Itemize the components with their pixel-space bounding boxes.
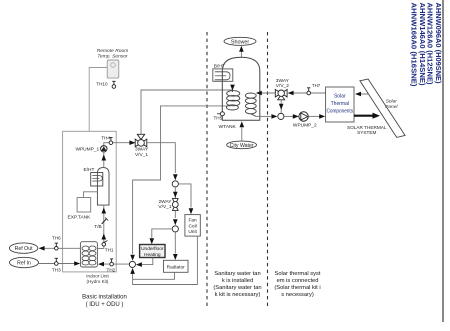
remote room temp sensor label <box>97 48 129 60</box>
svg-text:AHNW166A0 (H16SNE): AHNW166A0 (H16SNE) <box>410 3 419 87</box>
arrow down into junction A <box>173 174 178 180</box>
arrow up into pump <box>102 155 107 161</box>
caption Basic installation (IDU + ODU) <box>82 294 127 308</box>
sensor TH10 <box>96 81 115 88</box>
sanitary water tank WTANK <box>219 57 260 130</box>
sensor TH4 <box>101 136 112 145</box>
pipe junction D to pump 2 <box>284 115 294 117</box>
sensor TH5 <box>214 112 225 121</box>
svg-text:V/V_2: V/V_2 <box>276 83 289 89</box>
svg-text:TH5: TH5 <box>214 115 223 120</box>
section divider dashed line 2 <box>267 32 269 308</box>
arrow down into junction B <box>173 219 178 225</box>
svg-text:TH1: TH1 <box>105 247 114 252</box>
pipe HX to E/HT <box>103 205 105 248</box>
svg-text:k is installed: k is installed <box>222 278 253 284</box>
pipe tank coil return <box>133 106 231 254</box>
pipe valve V/V_2 down to junction D <box>280 100 282 114</box>
svg-text:TH2: TH2 <box>107 267 116 272</box>
svg-text:Solar: Solar <box>334 94 346 100</box>
pipe solar coil out to junction D <box>256 115 271 117</box>
pipe solar panel to components <box>359 93 376 95</box>
wire pump outlet to 3way valve <box>104 143 136 146</box>
arrow down into 2way valve <box>173 192 178 198</box>
svg-text:Solar: Solar <box>386 99 398 105</box>
refrigerant in ellipse <box>10 257 39 267</box>
pipe valve right port to junction A <box>147 143 176 173</box>
svg-text:TH4: TH4 <box>101 136 110 141</box>
arrow down into tank coil <box>230 85 235 91</box>
city water ellipse <box>227 141 257 149</box>
svg-text:Remote Room: Remote Room <box>97 48 129 54</box>
3way valve V/V_2 <box>275 78 289 100</box>
pipe 2way valve to junction B <box>174 210 176 218</box>
pipe 3way valve V/V_2 to tank solar coil <box>258 92 275 94</box>
radiator box <box>164 260 189 272</box>
arrow into bottom junction from right <box>136 262 142 267</box>
junction node A <box>172 181 178 187</box>
pipe HX outlet to TH1 riser <box>97 248 103 250</box>
svg-text:WTANK: WTANK <box>219 124 237 130</box>
pipe tank to shower <box>240 50 242 57</box>
svg-text:TH7: TH7 <box>312 83 321 88</box>
svg-text:V/V_1: V/V_1 <box>135 152 148 158</box>
arrow into HX water side <box>98 262 104 267</box>
svg-text:Temp. Sensor: Temp. Sensor <box>97 53 128 59</box>
svg-text:WPUMP_2: WPUMP_2 <box>293 123 317 129</box>
caption solar thermal note <box>274 271 321 298</box>
pipe junction B to radiator <box>174 232 176 254</box>
pipe junction A to fan coil unit <box>178 184 191 208</box>
svg-text:2WAY: 2WAY <box>158 199 172 205</box>
pipe city water to tank <box>241 128 243 142</box>
arrow into Ref Out <box>39 246 45 251</box>
svg-text:T/B: T/B <box>94 224 101 230</box>
svg-text:Underfloor: Underfloor <box>141 246 164 252</box>
service valve T/B <box>94 218 108 230</box>
arrow into junction D <box>271 114 277 119</box>
water pump WPUMP_1 <box>75 146 107 153</box>
sensor TH1 <box>102 241 114 253</box>
svg-text:( IDU + ODU ): ( IDU + ODU ) <box>86 302 124 308</box>
wire expansion tank to E/HT <box>84 192 98 198</box>
arrow into 3way valve V/V_1 <box>129 140 135 145</box>
svg-text:Thermal: Thermal <box>331 101 349 107</box>
arrow into HX refrigerant side <box>74 261 80 266</box>
svg-text:Unit: Unit <box>188 229 197 235</box>
page right border line <box>442 0 444 322</box>
arrow up above TH1 <box>102 234 107 240</box>
electric heater E/HT <box>84 167 110 205</box>
caption shower <box>224 37 256 45</box>
svg-text:3WAY: 3WAY <box>135 147 149 153</box>
underfloor heating return pipe <box>142 258 153 265</box>
arrow up into shower <box>239 46 244 52</box>
svg-text:(Hydro Kit): (Hydro Kit) <box>87 279 109 284</box>
svg-text:EXP.TANK: EXP.TANK <box>68 214 92 220</box>
wire E/HT to pump <box>103 152 105 167</box>
svg-text:Indoor Unit: Indoor Unit <box>86 273 109 278</box>
svg-text:s necessary): s necessary) <box>281 292 314 298</box>
sensor TH6 on Ref Out line <box>52 236 61 251</box>
pipe junction B to underfloor heating <box>152 229 172 238</box>
2way valve V/V_1 <box>158 199 178 211</box>
pipe pump 2 to solar components <box>308 115 320 117</box>
svg-text:Components: Components <box>327 109 354 115</box>
svg-text:WPUMP_1: WPUMP_1 <box>75 147 99 153</box>
svg-text:TH3: TH3 <box>52 268 61 273</box>
svg-text:Shower: Shower <box>231 39 249 45</box>
svg-text:Radiator: Radiator <box>167 264 186 270</box>
arrow down into radiator <box>173 254 178 260</box>
caption sanitary water tank note <box>213 271 261 298</box>
svg-text:Heating: Heating <box>144 252 161 258</box>
wire Ref In to HX <box>39 263 76 265</box>
indoor unit box <box>63 131 117 272</box>
svg-text:Coil: Coil <box>188 223 196 229</box>
solar thermal components box <box>326 87 354 122</box>
radiator return pipe <box>133 272 175 279</box>
arrow into valve V/V_2 right port <box>288 91 294 96</box>
svg-text:Sanitary water tan: Sanitary water tan <box>214 271 260 277</box>
wire remote sensor to indoor unit <box>89 68 107 132</box>
thick supply arrow components to panel <box>354 113 380 119</box>
underfloor heating box <box>140 245 165 259</box>
fan coil return pipe <box>133 236 198 284</box>
solar panel <box>360 79 405 137</box>
solar panel label <box>385 99 398 110</box>
water pump WPUMP_2 <box>293 112 317 129</box>
indoor unit caption <box>86 273 109 284</box>
arrow up into tank <box>240 121 245 127</box>
sensor TH2 <box>107 259 116 273</box>
arrow into solar components <box>319 114 325 119</box>
svg-text:em is connected: em is connected <box>277 278 319 284</box>
svg-text:(Sanitary water tan: (Sanitary water tan <box>213 285 261 291</box>
junction node C <box>129 261 135 267</box>
caption SOLAR THERMAL SYSTEM <box>347 125 387 135</box>
booster heater B/HT <box>213 64 233 82</box>
svg-text:City Water: City Water <box>230 143 254 149</box>
arrow down to junction D <box>279 104 284 110</box>
arrow into components from panel <box>355 92 361 97</box>
svg-text:Ref Out: Ref Out <box>15 246 33 252</box>
wire HX to Ref Out <box>44 247 80 249</box>
sensor TH7 <box>307 83 321 95</box>
pipe junction A to 2way valve <box>174 187 176 199</box>
refrigerant out ellipse <box>9 243 37 253</box>
junction node D <box>278 113 284 119</box>
arrow into solar coil <box>256 91 262 96</box>
fan coil unit box <box>185 215 200 237</box>
svg-text:V/V_1: V/V_1 <box>158 204 171 210</box>
pipe solar components to valve V/V_2 <box>294 92 326 94</box>
svg-text:Ref In: Ref In <box>17 261 31 267</box>
svg-text:(Solar thermal kit i: (Solar thermal kit i <box>274 285 320 291</box>
arrow up into E/HT <box>102 208 107 214</box>
arrow down into bottom junction <box>130 255 135 261</box>
svg-text:Fan: Fan <box>188 218 197 224</box>
remote room sensor unit <box>107 60 119 78</box>
svg-text:Basic installation: Basic installation <box>82 294 127 300</box>
section divider dashed line 1 <box>206 32 208 308</box>
svg-text:TH10: TH10 <box>96 82 108 87</box>
plate heat exchanger <box>80 242 97 267</box>
junction node B <box>172 226 178 232</box>
arrow down into fan coil unit <box>189 208 194 214</box>
arrow up into bottom junction <box>130 268 135 274</box>
tank solar coil right <box>245 93 256 116</box>
pipe valve top port to tank coil <box>141 90 233 134</box>
water return line junction to HX <box>104 263 130 265</box>
svg-text:TH6: TH6 <box>52 236 61 241</box>
svg-text:k kit is necessary): k kit is necessary) <box>215 292 261 298</box>
tank heating coil left <box>226 90 239 110</box>
arrow into pump 2 <box>293 114 299 119</box>
svg-text:Solar thermal syst: Solar thermal syst <box>274 271 320 277</box>
arrow down into underfloor heating <box>150 238 155 244</box>
expansion tank EXP.TANK <box>68 198 92 221</box>
svg-text:Panel: Panel <box>385 104 398 110</box>
sensor TH3 on Ref In line <box>52 258 61 272</box>
3way valve V/V_1 <box>135 134 149 158</box>
svg-text:SYSTEM: SYSTEM <box>357 130 376 135</box>
svg-text:3WAY: 3WAY <box>276 78 290 84</box>
